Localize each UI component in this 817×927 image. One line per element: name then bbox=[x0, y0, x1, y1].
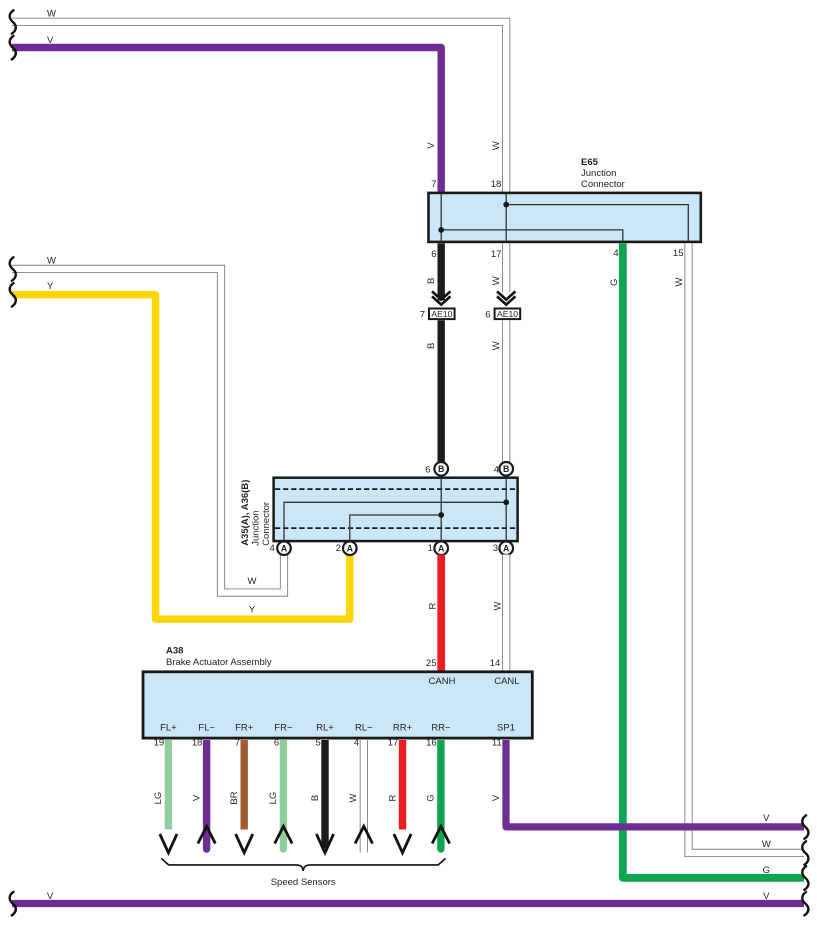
arrow (RR+ sensor, down) bbox=[394, 834, 411, 853]
svg-text:AE10: AE10 bbox=[497, 309, 518, 319]
svg-text:3: 3 bbox=[493, 543, 498, 554]
svg-text:G: G bbox=[426, 794, 437, 801]
continuation brace (top W, left) bbox=[10, 10, 16, 34]
junction dot (A35, left bus) bbox=[438, 512, 444, 518]
svg-text:15: 15 bbox=[673, 248, 684, 259]
continuation brace (G right) bbox=[802, 866, 808, 890]
svg-text:V: V bbox=[191, 794, 202, 801]
A35 internal: 4A branch bbox=[284, 502, 506, 541]
wire W (E65 pin 17 to AE10) bbox=[502, 243, 510, 292]
continuation brace (mid Y, left) bbox=[10, 283, 16, 307]
svg-text:A38: A38 bbox=[166, 646, 183, 657]
junction dot (E65, B bus) bbox=[438, 227, 444, 233]
svg-text:FR+: FR+ bbox=[235, 722, 254, 733]
continuation brace (mid W, left) bbox=[10, 257, 16, 281]
svg-text:2: 2 bbox=[336, 543, 341, 554]
svg-text:V: V bbox=[47, 891, 54, 902]
svg-text:FL−: FL− bbox=[198, 722, 215, 733]
wire W (top, into E65 pin 18) bbox=[12, 22, 506, 193]
connector AE10 (pin 7, B wire) bbox=[429, 309, 455, 320]
E65 internal bus: pin 7 to pin 6 bbox=[440, 193, 442, 242]
wire B (E65 pin 6 to AE10) bbox=[438, 243, 445, 300]
svg-text:W: W bbox=[47, 256, 56, 267]
svg-text:W: W bbox=[491, 141, 502, 150]
wire W (A35 3A to A38 pin 14) bbox=[502, 555, 510, 671]
svg-text:RL+: RL+ bbox=[316, 722, 334, 733]
pin 4(A) terminal bbox=[277, 541, 291, 555]
svg-text:4: 4 bbox=[270, 543, 275, 554]
wire V (bottom, full width) bbox=[12, 900, 804, 907]
wire LG (FL+ pin 19) bbox=[165, 740, 172, 830]
svg-text:B: B bbox=[426, 278, 437, 284]
svg-text:RR+: RR+ bbox=[393, 722, 413, 733]
svg-text:Brake Actuator Assembly: Brake Actuator Assembly bbox=[166, 657, 272, 668]
svg-text:B: B bbox=[503, 464, 509, 474]
svg-text:B: B bbox=[426, 343, 437, 349]
svg-text:A: A bbox=[347, 544, 354, 554]
A35 dashed bus bar (upper) bbox=[275, 488, 518, 490]
svg-text:W: W bbox=[674, 277, 685, 286]
continuation brace (top V, left) bbox=[10, 36, 16, 60]
wire W (E65 pin 15 down to bottom right) bbox=[689, 243, 805, 853]
svg-text:6: 6 bbox=[431, 249, 436, 260]
svg-text:17: 17 bbox=[388, 738, 399, 749]
BOTTOM-SECTION bbox=[10, 740, 809, 915]
svg-text:R: R bbox=[427, 602, 438, 609]
wire V (SP1 pin 11 to right edge) bbox=[506, 740, 804, 827]
svg-text:V: V bbox=[491, 794, 502, 801]
svg-text:25: 25 bbox=[426, 658, 437, 669]
A35 internal: 4B to 3A bbox=[505, 478, 507, 541]
svg-text:W: W bbox=[762, 839, 771, 850]
svg-text:11: 11 bbox=[492, 738, 502, 749]
arrow (FL- sensor, up) bbox=[198, 826, 215, 843]
pin 2(A) terminal bbox=[343, 541, 357, 555]
E65 internal branch to pin 15 bbox=[506, 205, 688, 242]
arrow (RL+ sensor, down) bbox=[316, 834, 333, 853]
wire Y (left edge to A35 pin 2A) bbox=[12, 295, 350, 620]
speed sensors brace bbox=[161, 858, 445, 871]
svg-text:7: 7 bbox=[235, 738, 240, 749]
svg-text:1: 1 bbox=[428, 543, 433, 554]
svg-text:6: 6 bbox=[425, 465, 430, 476]
svg-text:G: G bbox=[763, 865, 770, 876]
wire G (RR- pin 16) bbox=[437, 740, 444, 849]
svg-text:LG: LG bbox=[153, 792, 164, 805]
svg-text:Connector: Connector bbox=[581, 179, 625, 190]
svg-text:A35(A), A36(B): A35(A), A36(B) bbox=[240, 480, 251, 546]
wire W (RL- pin 4) bbox=[360, 740, 368, 853]
svg-text:B: B bbox=[310, 795, 321, 801]
svg-text:18: 18 bbox=[491, 179, 502, 190]
svg-text:FR−: FR− bbox=[274, 722, 293, 733]
svg-text:RR−: RR− bbox=[431, 722, 451, 733]
svg-text:Junction: Junction bbox=[581, 168, 616, 179]
CONNECTOR-A38 bbox=[143, 646, 532, 749]
arrow (FR+ sensor, down) bbox=[236, 834, 253, 853]
A35 internal: 6B to 1A bbox=[440, 478, 442, 541]
svg-text:7: 7 bbox=[420, 309, 425, 320]
svg-text:19: 19 bbox=[154, 738, 165, 749]
pin 4(B) terminal bbox=[499, 462, 513, 476]
svg-text:4: 4 bbox=[613, 248, 618, 259]
svg-text:W: W bbox=[47, 9, 56, 20]
continuation brace (bottom V, right) bbox=[802, 892, 808, 916]
wire V (FL- pin 18) bbox=[203, 740, 210, 849]
svg-text:16: 16 bbox=[426, 738, 437, 749]
svg-text:A: A bbox=[281, 544, 288, 554]
svg-text:BR: BR bbox=[229, 791, 240, 804]
svg-text:V: V bbox=[763, 813, 770, 824]
CONNECTOR-A35 bbox=[240, 462, 518, 671]
svg-text:V: V bbox=[763, 891, 770, 902]
pin 1(A) terminal bbox=[434, 541, 448, 555]
brake actuator assembly A38 body bbox=[143, 672, 532, 738]
svg-text:CANH: CANH bbox=[429, 676, 456, 687]
svg-text:W: W bbox=[248, 576, 257, 587]
svg-text:R: R bbox=[387, 794, 398, 801]
svg-text:6: 6 bbox=[274, 738, 279, 749]
svg-text:E65: E65 bbox=[581, 157, 599, 168]
wire W (AE10 to A35 pin 4B) bbox=[502, 320, 510, 462]
svg-text:14: 14 bbox=[490, 658, 501, 669]
svg-text:6: 6 bbox=[485, 309, 490, 320]
arrow (FL+ sensor, down) bbox=[160, 834, 177, 853]
svg-text:4: 4 bbox=[494, 465, 499, 476]
continuation brace (bottom V, left) bbox=[10, 892, 16, 916]
svg-text:AE10: AE10 bbox=[431, 309, 452, 319]
wire R (A35 1A to A38 pin 25) bbox=[437, 555, 445, 671]
svg-text:RL−: RL− bbox=[355, 722, 373, 733]
svg-text:G: G bbox=[609, 279, 620, 286]
continuation brace (W right) bbox=[802, 841, 808, 865]
WIRES-TOP bbox=[10, 9, 507, 193]
junction dot (A35, right bus) bbox=[503, 499, 509, 505]
wire G (E65 pin 4 down to bottom right) bbox=[623, 243, 804, 878]
svg-text:LG: LG bbox=[268, 792, 279, 805]
svg-text:V: V bbox=[426, 142, 437, 149]
arrow (RL- sensor, up) bbox=[355, 826, 372, 843]
svg-text:W: W bbox=[491, 276, 502, 285]
svg-text:17: 17 bbox=[491, 249, 502, 260]
E65 internal bus: pin 18 to pin 17 bbox=[505, 193, 507, 242]
svg-text:V: V bbox=[47, 35, 54, 46]
svg-text:B: B bbox=[438, 464, 444, 474]
svg-text:W: W bbox=[491, 341, 502, 350]
svg-text:5: 5 bbox=[316, 738, 321, 749]
svg-text:7: 7 bbox=[431, 179, 436, 190]
svg-text:W: W bbox=[492, 601, 503, 610]
arrow (FR- sensor, up) bbox=[275, 826, 292, 843]
svg-text:CANL: CANL bbox=[494, 676, 519, 687]
svg-text:4: 4 bbox=[354, 738, 359, 749]
svg-text:Connector: Connector bbox=[261, 502, 272, 546]
svg-text:18: 18 bbox=[192, 738, 203, 749]
E65 internal branch to pin 4 bbox=[441, 230, 623, 242]
arrow into AE10 (B wire) bbox=[432, 291, 450, 304]
wire W (left edge to A35 pin 4A) bbox=[12, 269, 284, 593]
junction connector E65 body bbox=[429, 193, 701, 242]
wire V (top, into E65 pin 7) bbox=[12, 48, 441, 194]
svg-text:W: W bbox=[348, 793, 359, 802]
pin 6(B) terminal bbox=[434, 462, 448, 476]
arrow (RR- sensor, up) bbox=[432, 826, 449, 843]
continuation brace (V right) bbox=[802, 815, 808, 839]
wire BR (FR+ pin 7) bbox=[240, 740, 247, 830]
A35 dashed bus bar (lower) bbox=[275, 527, 518, 529]
junction connector A35(A),A36(B) body bbox=[274, 478, 518, 541]
A35 internal: 2A branch bbox=[350, 515, 441, 541]
wire B (AE10 to A35 pin 6B) bbox=[438, 320, 445, 462]
connector AE10 (pin 6, W wire) bbox=[495, 309, 521, 320]
svg-text:A: A bbox=[503, 544, 510, 554]
svg-text:A: A bbox=[438, 544, 445, 554]
MID-SECTION bbox=[10, 243, 804, 878]
svg-text:SP1: SP1 bbox=[497, 722, 515, 733]
svg-text:Y: Y bbox=[47, 281, 54, 292]
wire LG (FR- pin 6) bbox=[280, 740, 287, 849]
pin 3(A) terminal bbox=[499, 541, 513, 555]
svg-text:FL+: FL+ bbox=[160, 722, 177, 733]
svg-text:Speed Sensors: Speed Sensors bbox=[271, 877, 336, 888]
arrow into AE10 (W wire) bbox=[497, 291, 515, 304]
junction dot (E65, W bus) bbox=[503, 202, 509, 208]
CONNECTOR-E65 bbox=[429, 157, 701, 260]
wire R (RR+ pin 17) bbox=[399, 740, 406, 830]
svg-text:Y: Y bbox=[249, 605, 256, 616]
wire B (RL+ pin 5) bbox=[321, 740, 328, 849]
